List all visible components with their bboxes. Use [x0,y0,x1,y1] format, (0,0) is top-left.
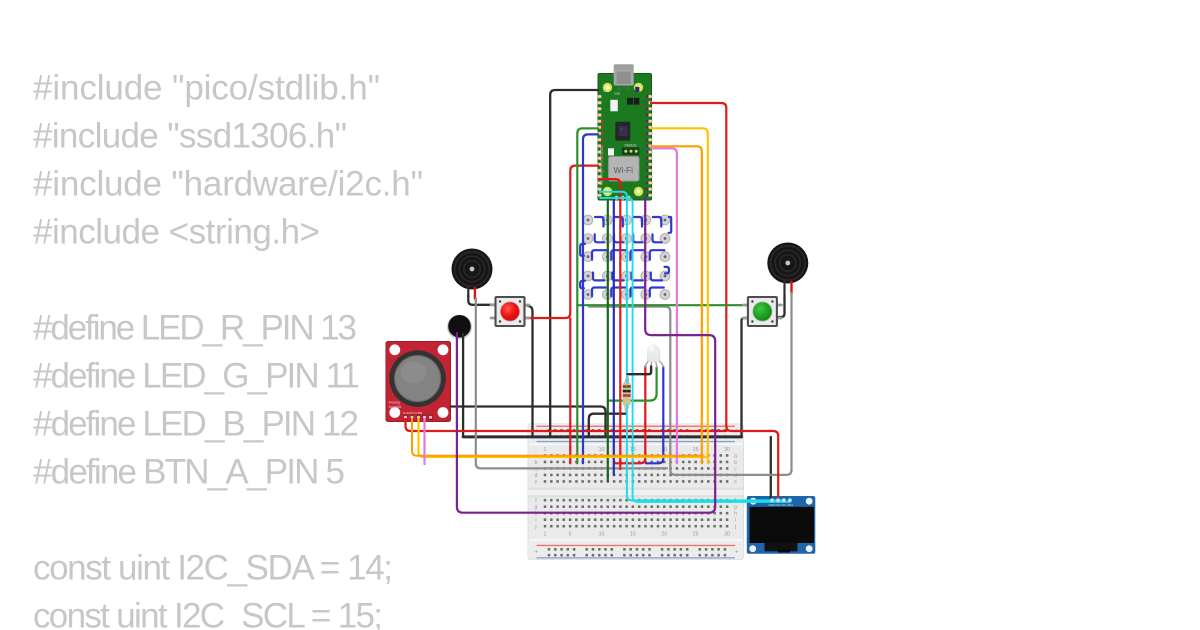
resistor R1 [623,375,628,412]
vibration motor M1 [448,315,471,339]
svg-text:d: d [535,473,538,479]
svg-text:h: h [734,511,737,517]
svg-text:#define LED_G_PIN 11: #define LED_G_PIN 11 [33,357,360,396]
svg-text:i: i [535,518,536,524]
pushbutton A (red) [491,297,529,326]
wire rail to OLED GND (black) [770,437,772,499]
buzzer BZ1 pins [467,286,469,297]
breadboard labels [534,429,739,556]
wire pico SCL to OLED (cyan) [600,192,784,501]
wire joystick to row a (pink) [423,419,425,464]
svg-text:b: b [734,460,737,466]
wire pico GP to row b (yellow) [651,128,708,463]
neopixel data wires [580,217,671,296]
wire pico 3V3 to OLED VCC (red) [651,103,778,499]
pico Wi-Fi shield [609,157,640,182]
svg-text:10: 10 [599,447,605,453]
pushbutton B (green) [743,297,781,326]
pico inner pad marks [601,120,604,172]
svg-text:30: 30 [724,532,730,538]
wire button B to rail (black) [742,318,748,437]
wire pico GND to rail (black) [550,90,598,437]
pico RP2040 chip [615,122,630,141]
wire pico SDA to OLED (cyan) [600,198,790,502]
svg-text:#include "pico/stdlib.h": #include "pico/stdlib.h" [33,69,380,108]
wire pico GP to row b (pink) [651,148,677,463]
RGB LED cathode bar (black) [628,367,652,375]
svg-text:a: a [734,453,737,459]
svg-text:5: 5 [569,532,572,538]
wire pico to vibration motor via row h (purple) [457,198,715,513]
svg-text:const uint I2C_SDA = 14;: const uint I2C_SDA = 14; [33,549,393,588]
svg-text:e: e [535,479,538,485]
wire joystick VRy along row a (orange) [412,419,701,456]
svg-text:25: 25 [693,447,699,453]
svg-text:g: g [734,505,737,511]
wire pico GP to row b (blue) [583,134,598,463]
wire pico GP to button A (red) [524,166,598,318]
buzzer BZ2 [767,243,808,284]
svg-text:+: + [735,550,739,556]
wire button B to pico (green) [577,304,747,306]
wire buzzer BZ2 via row d (gray) [589,293,792,475]
svg-text:#include <string.h>: #include <string.h> [33,213,320,252]
wire LED green leg (green) [608,367,657,400]
svg-text:#define LED_R_PIN 13: #define LED_R_PIN 13 [33,309,357,348]
svg-text:15: 15 [630,532,636,538]
buzzer BZ1 [452,249,493,290]
svg-text:#include "hardware/i2c.h": #include "hardware/i2c.h" [33,165,423,204]
breadboard hole grid [544,429,729,557]
svg-text:GND VCC SCL SDA: GND VCC SCL SDA [769,503,794,507]
breadboard printed red/blue rail lines [537,426,736,427]
wire pico to row e (dark green) [607,199,609,481]
wire LED anode to row b (red) [615,367,646,464]
RGB LED legs [645,359,663,368]
code text background [33,69,423,630]
neopixel 5x5 grid [582,214,672,302]
wire button A to row b (red) [569,319,571,464]
svg-text:USB: USB [614,92,620,96]
wire buzzer BZ2 to button B (black) [778,296,785,317]
svg-text:b: b [535,460,538,466]
joystick pins [403,415,407,421]
svg-text:1: 1 [544,447,547,453]
svg-text:30: 30 [724,447,730,453]
svg-text:c: c [734,466,737,472]
OLED pins [770,498,774,502]
svg-text:10: 10 [599,532,605,538]
wire LED blue leg to row b (blue) [646,367,663,463]
svg-text:1: 1 [544,532,547,538]
buzzer BZ2 pins [783,280,785,296]
wire joystick VCC to rail (red) [406,419,727,431]
wire resistors to rail (black) [589,414,626,437]
wire pico GP to row b (orange) [651,146,702,463]
svg-text:j: j [534,524,536,530]
svg-text:LED: LED [603,89,608,93]
wire buzzer BZ1 to breadboard row c (gray) [476,298,667,468]
pico mounting holes [603,83,612,92]
svg-text:Analog: Analog [389,401,400,405]
wire pico to row c (red) [599,179,620,469]
rail ground bus (black) [463,435,741,438]
svg-text:#define BTN_A_PIN 5: #define BTN_A_PIN 5 [33,453,345,492]
wire joystick VRx along row a (yellow) [419,419,708,457]
wire buzzer BZ1 to button A (black) [468,295,496,305]
wire joystick SW to rail (black) [451,407,606,437]
pico pin pads [597,95,652,200]
svg-text:DEBUG: DEBUG [625,143,637,147]
svg-text:i: i [735,518,736,524]
svg-text:e: e [734,479,737,485]
breadboard [528,424,744,560]
svg-text:#define LED_B_PIN 12: #define LED_B_PIN 12 [33,405,359,444]
svg-text:const uint I2C_SCL = 15;: const uint I2C_SCL = 15; [33,597,383,630]
svg-text:#include "ssd1306.h": #include "ssd1306.h" [33,117,347,156]
svg-text:Joystick: Joystick [389,405,402,409]
svg-text:j: j [734,524,736,530]
RGB LED bulb [647,344,661,362]
svg-text:20: 20 [661,532,667,538]
wire pico to row d (blue) [613,199,615,475]
svg-text:g: g [535,505,538,511]
wire pico GP to row b (green) [577,128,598,463]
resistor R2 [627,375,631,412]
svg-text:25: 25 [693,532,699,538]
svg-text:Wi-Fi: Wi-Fi [614,165,634,175]
wire button A to rail (black) [525,305,533,437]
svg-text:+: + [535,550,539,556]
Raspberry Pi Pico W U1 [597,64,652,200]
joystick module [386,342,451,422]
svg-text:G +5 VX VY SW: G +5 VX VY SW [403,411,422,415]
OLED display SSD1306 [747,496,816,554]
wire motor to rail (black) [462,334,464,437]
